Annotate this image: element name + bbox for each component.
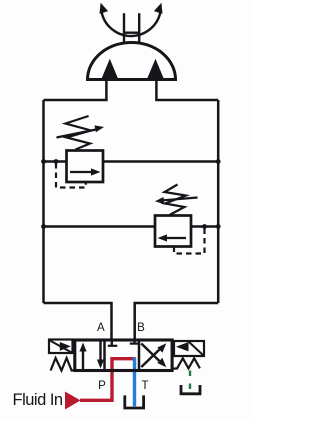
Fluid In arrow (red triangle) [65, 392, 81, 410]
directional valve envelope divider 1 [103, 340, 106, 371]
relief valve R2 pilot line (dashed) [174, 228, 205, 254]
svg-text:P: P [98, 380, 106, 392]
spring (right end of valve) [172, 358, 200, 369]
solenoid S2 triangle [176, 342, 189, 351]
wire: right vertical rail [217, 100, 220, 303]
air motor flow triangle right [147, 59, 164, 79]
node: pilot tap dot at R1 inlet [54, 159, 59, 164]
wire: left vertical rail [42, 100, 45, 303]
node: junction dot on left rail at R1 inlet [41, 159, 46, 164]
relief valve R1 adjustment arrow [57, 130, 97, 138]
solenoid S1 triangle [60, 342, 71, 351]
relief valve R1 internal flow arrow [70, 171, 93, 173]
wire: blue tank line from center envelope through T to tank [133, 358, 136, 407]
relief valve R2 adjustment arrow [163, 198, 198, 201]
envelope 1 down arrow [99, 341, 101, 362]
envelope 3 crossed arrow 1 [141, 348, 161, 367]
svg-text:T: T [141, 380, 148, 392]
wire: top rail left segment to motor left leg [44, 80, 107, 101]
svg-text:B: B [137, 322, 145, 334]
relief valve R1 inlet wire [44, 160, 67, 163]
bidirectional exhaust arc arrow [102, 12, 161, 37]
wire: lower-right run from rail to port B [135, 303, 219, 340]
solenoid S2 diagonal [189, 342, 205, 357]
wire: top rail right segment to motor right leg [156, 80, 218, 101]
solenoid S2 (right) box [174, 341, 204, 356]
solenoid S1 (left) box [49, 340, 73, 354]
relief valve R2 outlet wire to right rail [191, 225, 218, 228]
node: junction dot on right rail at R1 outlet [216, 159, 221, 164]
svg-text:Fluid In: Fluid In [13, 391, 63, 409]
envelope 2 blocked port B stub [133, 340, 135, 343]
svg-text:A: A [97, 322, 105, 334]
air motor flow triangle left [101, 59, 118, 79]
envelope 3 crossed arrow 2 [141, 344, 161, 363]
relief valve R2 spring [165, 185, 187, 216]
relief valve R1 spring [66, 116, 92, 150]
solenoid S1 diagonal [49, 340, 73, 353]
node: junction dot on left rail at R2 inlet [41, 224, 46, 229]
node: junction dot on right rail at R2 outlet [216, 224, 221, 229]
envelope 2 blocked port A stub [111, 340, 113, 346]
arc arrowhead left [100, 3, 109, 14]
relief valve R1 pilot line (dashed) [56, 163, 86, 188]
relief valve R1 outlet wire to right rail [103, 160, 218, 163]
drain tank symbol (small) [181, 385, 200, 394]
arc arrowhead right [154, 3, 163, 14]
spring (left end of valve) [51, 358, 75, 371]
directional valve envelope divider 2 [138, 340, 141, 371]
relief valve R2 internal flow arrow [165, 237, 186, 239]
wire: red pressure line from Fluid In to P and across center envelope [80, 359, 136, 401]
air motor M1 dome [88, 43, 176, 80]
node: pilot tap dot at R2 outlet [202, 224, 207, 229]
tank symbol [125, 395, 144, 408]
envelope 1 up arrow [82, 349, 84, 370]
wire: lower-left run from rail to port A [44, 303, 112, 340]
green dashed drain line below right spring [189, 371, 191, 390]
relief valve R2 inlet wire from left rail [44, 225, 156, 228]
relief valve R2 body [155, 216, 191, 247]
exhaust port lines (H symbol) [124, 13, 139, 42]
directional valve V1 body [75, 340, 172, 371]
relief valve R1 body [67, 151, 104, 183]
